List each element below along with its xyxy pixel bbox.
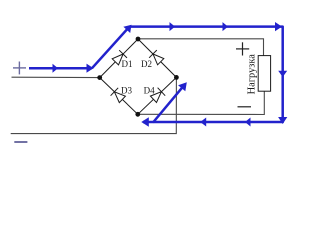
wire: blue flow diagonal (through D4) — [153, 85, 185, 123]
wire: bottom AC line and right riser — [11, 77, 177, 133]
wire: bridge edge TR — [138, 39, 176, 77]
flow arrow 3 diagonal tip — [123, 25, 131, 33]
flow arrow 8 bottom corner — [278, 117, 287, 124]
flow arrow 11 bottom end — [141, 117, 149, 126]
wire: bridge edge BR — [138, 77, 177, 114]
node bottom — [135, 112, 140, 117]
svg-text:D2: D2 — [141, 59, 152, 69]
wire: load bottom return — [138, 91, 264, 114]
wire: bridge edge LT — [100, 39, 138, 78]
diode D3 — [111, 88, 126, 103]
flow arrow 12 diagonal D4 tip — [178, 82, 187, 91]
svg-text:D1: D1 — [122, 59, 133, 69]
resistor load (Нагрузка) — [258, 56, 270, 92]
svg-text:D4: D4 — [144, 85, 155, 95]
flow arrow 1 — [53, 64, 59, 73]
node left — [97, 75, 102, 80]
svg-text:Нагрузка: Нагрузка — [247, 54, 258, 95]
label - (AC input) — [14, 141, 27, 143]
flow arrow 4 top — [170, 22, 176, 31]
wire: blue flow top + right + bottom return — [131, 27, 283, 122]
diode D1 — [112, 50, 127, 65]
wire: blue flow input horizontal — [29, 67, 92, 70]
flow arrow 7 right vertical — [278, 71, 287, 77]
flow arrow 5 top — [223, 22, 229, 31]
flow arrow 9 bottom — [245, 118, 251, 127]
wire: blue flow input diagonal (through D1) — [92, 27, 130, 69]
node right — [174, 75, 179, 80]
label + (load) — [236, 42, 249, 55]
node top — [136, 37, 141, 42]
wire: left AC input — [12, 76, 100, 78]
flow arrow 10 bottom — [200, 118, 206, 127]
label - (load) — [238, 106, 252, 108]
wire: bridge edge LB — [100, 78, 138, 115]
flow arrow 2 at bend — [87, 64, 94, 73]
svg-text:D3: D3 — [121, 85, 132, 95]
label + (AC input) — [13, 62, 26, 75]
flow arrow 6 top corner — [275, 22, 282, 31]
diode D2 — [149, 50, 164, 65]
wire: top node to load — [138, 39, 264, 56]
diode D4 — [150, 88, 165, 103]
